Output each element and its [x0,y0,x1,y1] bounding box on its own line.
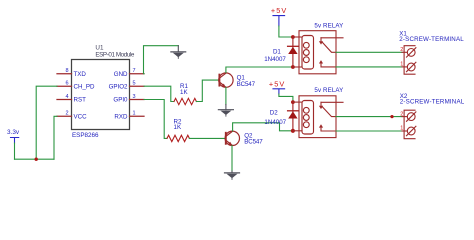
wire +5V to relay2 coil [279,94,293,102]
relay K2 coil pin 2 [293,130,302,132]
svg-text:ESP8266: ESP8266 [72,132,99,139]
node junction D2 anode top [291,100,295,104]
X2 pin 1 lead [402,130,407,132]
wire 3.3v rail [15,158,55,160]
wire +5V to relay1 coil [279,26,293,37]
pin 6 CH_PD stub [57,85,72,87]
wire relay2 NC to X2-1 [336,130,402,132]
wire 3.3v drop [14,143,16,159]
svg-text:+5V: +5V [269,79,284,88]
X2 pin 2 lead [402,116,407,118]
X2 screw 1 [407,126,416,135]
supply +5V bar symbol (second) [273,89,285,94]
svg-text:3.3v: 3.3v [7,129,20,136]
svg-text:GPI0: GPI0 [113,97,128,104]
wire CH_PD to rail [36,86,57,159]
svg-text:2: 2 [400,47,403,53]
wire relay1 NC to X1-1 [336,66,402,68]
supply 3.3v bar symbol [11,138,19,144]
svg-text:RST: RST [74,97,87,104]
svg-text:GND: GND [114,71,128,78]
svg-text:5: 5 [133,81,136,87]
wire GND pin to ground [144,46,179,74]
relay K1 coil pin 1 [293,36,302,38]
op-amp U1 ESP-01 module box [72,60,130,130]
svg-text:CH_PD: CH_PD [74,83,96,90]
svg-text:1N4007: 1N4007 [264,119,286,126]
svg-text:VCC: VCC [74,114,88,121]
relay K1 bottom contact arrow [321,62,336,67]
resistor R2 [167,135,189,141]
svg-text:5v RELAY: 5v RELAY [314,23,343,30]
svg-text:1: 1 [133,111,136,117]
relay K1 armature [322,42,336,52]
svg-text:3: 3 [133,94,136,100]
transistor Q2 [225,131,239,146]
relay K2 armature [322,107,336,117]
svg-text:2-SCREW-TERMINAL: 2-SCREW-TERMINAL [399,36,464,43]
relay K1 contact common pin stub [321,37,343,39]
supply +5V bar symbol (top) [273,16,285,26]
diode D2 1N4007 [288,102,299,131]
pin 3 GPIO0 stub [130,99,145,101]
pin 2 VCC stub [57,115,72,117]
svg-text:1: 1 [400,62,403,68]
relay K2 box [299,96,336,138]
wire GPIO2 to R1 [144,86,174,101]
X1 screw 2 [407,48,416,57]
svg-text:1N4007: 1N4007 [264,56,286,63]
relay K2 top contact arrow [320,102,322,106]
transistor Q1 [219,73,233,88]
svg-text:D1: D1 [273,48,281,55]
wire R2 to Q2 base [189,137,225,139]
junction node on 3.3v rail [35,158,38,161]
node stray junction on X2-2 wire [390,115,393,118]
X1 screw 1 [407,62,416,71]
wire Q1 collector to relay coil [226,67,293,73]
ground symbol under Q1 [218,105,233,117]
relay K2 coil pin 1 [293,101,302,103]
svg-text:8: 8 [65,68,68,74]
pin 1 RXD stub [130,115,145,117]
pin 5 GPIO2 stub [130,85,145,87]
ground symbol under Q2 [225,171,240,179]
wire GPIO0 to R2 [144,100,167,139]
svg-text:D2: D2 [270,110,278,117]
svg-text:ESP-01 Module: ESP-01 Module [95,52,134,59]
svg-text:U1: U1 [95,44,104,51]
wire Q1 emitter to ground [225,87,227,104]
wire Q2 emitter to ground [231,146,233,171]
X2 bracket outline [404,110,415,139]
ground symbol near U1 [171,46,186,59]
svg-text:1: 1 [400,126,403,132]
X1 pin 1 lead [402,66,407,68]
svg-text:1K: 1K [180,89,188,96]
wire relay2 NO to X2-2 [336,116,402,118]
resistor R1 [174,98,196,104]
relay K1 top contact arrow [320,38,322,42]
X2 screw 2 [407,112,416,121]
svg-text:BC547: BC547 [244,138,263,145]
svg-text:2: 2 [400,111,403,117]
svg-text:GPIO2: GPIO2 [109,83,128,90]
svg-text:RXD: RXD [114,114,128,121]
X1 pin 2 lead [402,51,407,53]
wire R1 to Q1 base [196,80,218,101]
relay K1 box [299,31,336,74]
wire VCC to rail [54,116,57,159]
svg-text:2: 2 [65,111,68,117]
svg-text:2-SCREW-TERMINAL: 2-SCREW-TERMINAL [400,99,465,106]
pin 7 GND stub [130,73,145,75]
X1 bracket outline [404,46,415,74]
node junction D1 anode top [291,35,295,39]
svg-text:6: 6 [65,81,68,87]
relay K2 contact common pin stub [321,101,343,103]
relay K1 coil pin 2 [293,66,302,68]
relay K1 coil [302,36,314,70]
relay K2 coil [302,101,314,135]
node junction D1 cathode bottom [291,65,295,69]
svg-text:1K: 1K [174,124,182,131]
node junction D2 cathode bottom [291,129,295,133]
svg-text:7: 7 [133,68,136,74]
pin 4 RST stub [57,99,72,101]
relay K2 bottom contact arrow [321,127,336,132]
pin 8 TXD stub [57,73,72,75]
wire Q2 collector to relay2 coil [233,123,293,131]
svg-text:TXD: TXD [74,71,87,78]
diode D1 1N4007 [288,37,299,67]
svg-text:BC547: BC547 [237,81,256,88]
svg-text:4: 4 [65,94,68,100]
svg-text:5v RELAY: 5v RELAY [314,87,343,94]
svg-text:+5V: +5V [271,6,286,15]
wire relay1 NO to X1-2 [336,51,402,53]
